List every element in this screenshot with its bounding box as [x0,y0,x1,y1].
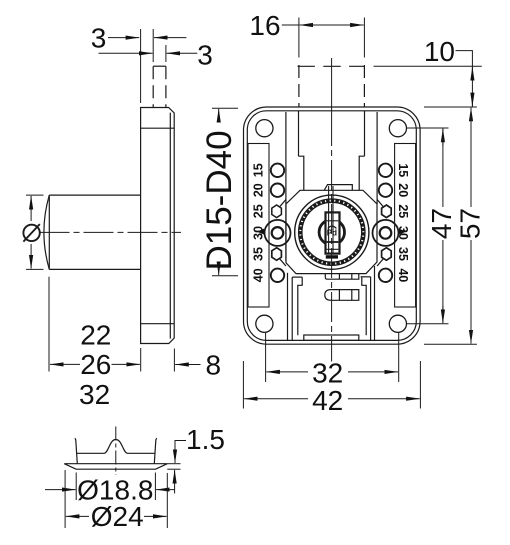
svg-text:20: 20 [252,183,266,197]
dim 3 (offset) extension line at plate left edge [140,29,142,103]
dim 1.5 arrows [174,451,176,463]
hidden tab side view left edge [152,66,154,107]
dim D15-D40 top tick [212,107,238,109]
dim 26 right extension [140,348,142,372]
logo arc [328,226,337,228]
body inner outline [247,111,416,341]
svg-text:40: 40 [396,268,410,282]
svg-text:25: 25 [396,204,410,218]
svg-text:D15-D40: D15-D40 [200,130,239,270]
dim 16 ext right [363,18,365,58]
svg-text:57: 57 [455,208,486,239]
corner hole bottom-right [389,315,406,332]
dim 24 ext left [64,470,66,528]
svg-text:15: 15 [396,163,410,177]
dim line 8 [175,364,200,366]
housing left outer edge [287,273,289,341]
dim 8 extension [173,349,175,372]
boss hole left outer [265,220,291,246]
keyway slit right [332,186,334,255]
cylinder top edge [49,194,140,196]
dim 1.5 ext top [167,463,180,465]
tab step right [359,156,364,190]
corner hole bottom-left [256,315,273,332]
pointer triangle right 30 [399,229,406,235]
cylinder centerline [40,231,182,233]
dim 10 leader [456,51,473,66]
keyway slit left [328,186,330,255]
svg-text:35: 35 [396,247,410,261]
svg-text:16: 16 [249,10,280,41]
cap centerline [115,427,117,476]
bottom plate strip [304,335,359,340]
corner hole top-right [389,120,406,137]
upper mini strip [325,274,359,279]
housing inner right edge [370,277,372,341]
svg-text:20: 20 [396,183,410,197]
dim 24 ext right [166,473,168,528]
central channel right edge upper [376,112,378,204]
dim 24 arrows [66,515,89,517]
svg-text:47: 47 [426,208,457,239]
right scale strip [395,144,416,308]
dim 32 arrows [266,371,308,373]
latch slot dividers [338,290,340,301]
dim 42 arrows [244,398,308,400]
side plate bottom cap line [141,323,175,325]
svg-text:1.5: 1.5 [186,424,225,455]
key slot outer [326,212,340,253]
hidden tab front view top [298,65,366,67]
hex nut right 25 [382,205,392,218]
knurl ring [300,201,363,264]
svg-text:40: 40 [252,268,266,282]
dim 18.8 arrows [45,489,76,491]
cylinder end face [48,195,50,269]
hex nut left 35 [272,248,282,261]
hex nut right 35 [382,248,392,261]
svg-text:8: 8 [206,349,222,380]
dim 47 ext top [407,127,449,129]
position circles left 15/20/40 [271,164,284,177]
svg-text:3: 3 [91,22,107,53]
svg-text:32: 32 [312,358,343,389]
housing right outer edge [374,266,376,340]
cylinder bottom edge [49,268,140,270]
dim 3 extension line tab left [152,29,154,62]
housing step left [298,277,302,335]
svg-text:Ø24: Ø24 [91,501,144,532]
tab step left [299,156,304,190]
dim 10 vertical [471,66,473,107]
ring band inner edge [302,202,362,262]
dim 16 ext left [298,18,300,58]
svg-text:25: 25 [252,204,266,218]
mini strip dividers [338,274,340,279]
side plate top cap line [141,127,175,129]
dim 18.8 ext left [75,473,77,501]
dim diameter ext bottom [26,268,44,270]
cap left wall [75,438,78,464]
latch slot [325,290,359,301]
svg-text:32: 32 [79,379,110,410]
dim 1.5 leader [175,441,186,452]
housing inner top left [292,276,302,278]
cylinder outer circle [295,195,369,269]
dim 42 ext left [242,361,244,409]
octagon plate [286,190,377,273]
key slot rung 2 [327,241,339,243]
pointer triangle left 30 [257,229,264,235]
rotor pin bar [326,255,338,258]
dim 3 extension line tab right [165,45,167,62]
connector diagonal left top [279,200,286,208]
position circles right 15/20/40 [379,164,392,177]
svg-text:22: 22 [80,319,111,350]
svg-text:42: 42 [312,385,343,416]
dim diameter arrows [30,196,32,221]
hidden tab front view left [298,65,300,107]
dim 47 line [442,129,444,207]
dim 57 ext bottom [424,343,477,345]
body outer outline [244,107,421,344]
dim 32 ext right [398,333,400,383]
svg-text:10: 10 [424,36,455,67]
ring band outer edge [299,199,365,265]
svg-text:3: 3 [197,40,213,71]
dim 10 ext line [374,65,482,67]
cap notch above cylinder [324,185,352,191]
boss hole left inner [272,227,284,239]
front view vertical centerline [331,58,333,116]
hidden tab front view right [363,65,365,107]
hidden tab side view right edge [165,66,167,107]
cap flange [64,464,167,470]
dim 32 ext left [265,333,267,383]
dim 16 stub [282,24,299,26]
housing step right [362,277,366,335]
dim 18.8 ext right [154,473,156,501]
side plate body [141,108,175,344]
svg-text:35: 35 [252,247,266,261]
corner hole top-left [256,120,273,137]
dim 57 ext top [424,106,477,108]
left scale strip [248,144,269,308]
tab visible right edge [364,111,366,156]
svg-text:15: 15 [252,163,266,177]
dim line 26 [50,363,80,365]
side plate inner right edge [169,113,171,339]
dim diameter ext top [26,194,44,196]
cap inner bottom with bump [77,440,155,454]
cylinder end dome arc [44,195,49,269]
rotor circle [319,220,344,245]
dim 26 left extension [48,277,50,372]
svg-text:26: 26 [80,349,111,380]
boss hole right inner [380,227,392,239]
dim 47 ext bottom [407,323,449,325]
dim 57 line [470,108,472,207]
housing inner top right [361,276,371,278]
dim 57 arrows [470,108,472,125]
dim 42 ext right [419,361,421,409]
connector diagonal right bottom [377,258,384,266]
dim line 3 lower [99,52,153,54]
dim 16 arrows [300,24,331,26]
dim 1.5 ext bottom [167,468,180,470]
central channel left edge [285,112,287,261]
dim 47 arrows [442,129,444,146]
dim line 3 upper [108,37,139,39]
hex nut left 25 [272,205,282,218]
connector diagonal left bottom [279,258,286,266]
connector diagonal right top [377,200,384,208]
cap right wall [154,438,157,464]
hidden tab side view top edge [153,65,166,67]
housing inner left edge [291,277,293,340]
key slot rung 1 [327,220,339,222]
dim 10 arrows [471,67,473,79]
dim D15-D40 arrows [218,109,220,122]
left strip labels [252,163,411,282]
boss hole right outer [373,220,399,246]
label diameter [23,225,39,241]
tab visible left edge [298,111,300,156]
key slot rung 3 [327,248,339,250]
dim D15-D40 bottom tick [212,275,238,277]
